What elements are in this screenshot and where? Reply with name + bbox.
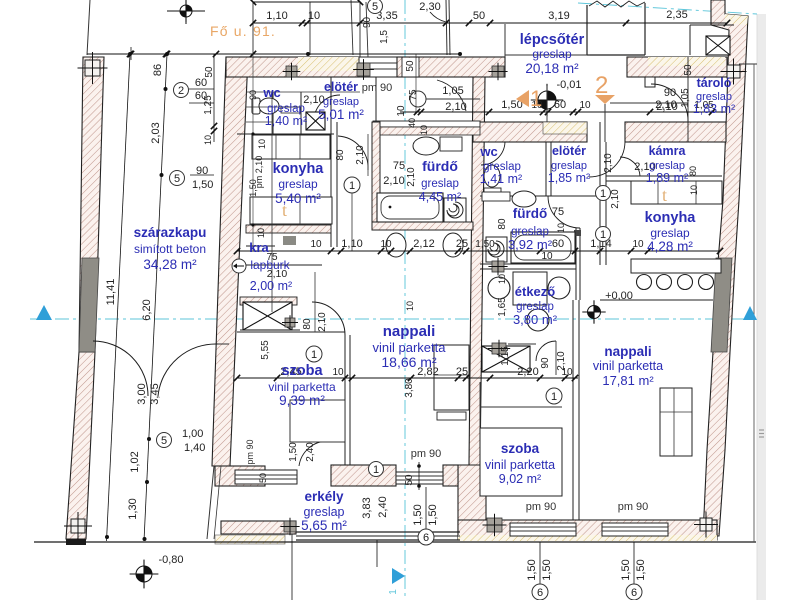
svg-text:greslap: greslap <box>278 177 318 191</box>
svg-text:1: 1 <box>530 86 542 111</box>
dim chain top y2 <box>253 1 360 3</box>
svg-text:+0,00: +0,00 <box>605 290 633 302</box>
szoba2 outline top step <box>480 406 562 408</box>
right outer wall (hatched) <box>703 0 748 536</box>
furdo1 bottom thin wall <box>372 222 473 230</box>
svg-text:3,80: 3,80 <box>404 378 415 398</box>
svg-text:10: 10 <box>310 239 322 250</box>
svg-text:9,02 m²: 9,02 m² <box>499 472 541 486</box>
svg-text:t: t <box>662 185 667 205</box>
left dim chain L1 (11,41) slanted <box>107 54 131 541</box>
svg-text:1,89 m²: 1,89 m² <box>646 171 688 185</box>
erkely railing lines <box>296 531 460 533</box>
svg-text:1,85 m²: 1,85 m² <box>548 171 590 185</box>
svg-text:10: 10 <box>497 274 507 284</box>
konyha2 upper counter <box>631 181 722 204</box>
svg-text:2,10: 2,10 <box>610 189 621 209</box>
position circle 6 <box>418 529 434 545</box>
furdo1 tub <box>377 193 443 222</box>
svg-text:1,50: 1,50 <box>248 179 258 197</box>
svg-text:50: 50 <box>204 66 215 78</box>
central wall lower corner block <box>458 465 486 536</box>
svg-text:2,10: 2,10 <box>383 175 404 187</box>
right wall cut section (gray) <box>711 258 732 352</box>
window south 2 <box>602 523 668 536</box>
svg-text:1,25: 1,25 <box>203 95 214 115</box>
svg-text:10: 10 <box>405 301 415 311</box>
svg-text:5,65 m²: 5,65 m² <box>301 518 347 533</box>
window opening in top wall <box>359 57 397 77</box>
svg-text:75: 75 <box>393 160 405 172</box>
szoba1 north wall line <box>237 331 345 333</box>
top wall yellow overlay <box>298 57 359 71</box>
svg-text:1: 1 <box>373 464 379 476</box>
partition furdo2/etkezo <box>480 263 576 265</box>
svg-text:elötér: elötér <box>552 144 586 158</box>
dim chain y378 <box>237 377 578 379</box>
svg-text:fürdő: fürdő <box>422 158 458 174</box>
szoba1-erkely door arc <box>299 441 328 466</box>
svg-text:80: 80 <box>335 149 346 161</box>
inner west wall (hatched) <box>212 57 248 466</box>
svg-text:pm 90: pm 90 <box>618 501 649 513</box>
section line vertical <box>404 0 406 598</box>
svg-text:szárazkapu: szárazkapu <box>134 225 207 240</box>
anchor mark <box>285 318 295 327</box>
partition eloter2/wc2 <box>545 142 547 196</box>
left dim chain L2 slanted <box>144 54 167 541</box>
konyha1 corridor door arc <box>338 136 368 170</box>
svg-text:60: 60 <box>195 77 207 89</box>
left wall base (black) <box>66 539 86 545</box>
position circle 1 <box>596 227 611 242</box>
svg-text:2,20: 2,20 <box>517 366 538 378</box>
svg-text:-0,01: -0,01 <box>556 79 581 91</box>
svg-text:11,41: 11,41 <box>105 279 117 306</box>
svg-text:1,41 m²: 1,41 m² <box>480 172 522 186</box>
svg-text:3,19: 3,19 <box>548 10 569 22</box>
svg-text:3,92 m²: 3,92 m² <box>508 237 553 252</box>
svg-text:60: 60 <box>554 99 566 111</box>
etkezo chair bottom <box>527 309 549 331</box>
top wall segment B <box>397 57 505 77</box>
erkely left slant boundary <box>207 466 214 539</box>
svg-text:2: 2 <box>178 85 184 97</box>
position circle 1 <box>344 177 360 193</box>
blue triangle bottom + F1 label <box>392 568 405 584</box>
svg-text:50: 50 <box>683 64 694 76</box>
svg-text:5,55: 5,55 <box>260 340 271 360</box>
svg-text:90: 90 <box>196 165 208 177</box>
svg-text:2: 2 <box>595 72 608 99</box>
svg-text:10: 10 <box>257 139 267 149</box>
top wall segment C (right of stairwell) <box>627 57 727 77</box>
scrollbar track <box>757 14 766 600</box>
svg-text:vinil parketta: vinil parketta <box>268 380 336 394</box>
furdo1 washer <box>444 198 466 222</box>
svg-text:90: 90 <box>362 16 373 28</box>
window south 1 <box>510 523 576 536</box>
wc1 door arc <box>314 95 340 121</box>
svg-text:1,50: 1,50 <box>526 559 538 580</box>
erkely yellow base <box>215 535 285 544</box>
svg-text:1,15: 1,15 <box>500 346 511 366</box>
furdo1 left thin wall <box>372 122 380 230</box>
svg-text:nappali: nappali <box>383 323 436 340</box>
shaft (X-box) <box>306 112 325 130</box>
szoba1 door arc <box>312 302 345 335</box>
svg-text:1: 1 <box>349 180 355 192</box>
svg-text:vinil parketta: vinil parketta <box>373 340 447 355</box>
svg-text:nappali: nappali <box>604 344 651 359</box>
svg-text:6,20: 6,20 <box>141 299 153 320</box>
svg-text:konyha: konyha <box>273 161 325 177</box>
svg-text:17,81 m²: 17,81 m² <box>602 373 654 388</box>
szoba2 inner line <box>479 428 481 496</box>
svg-text:80: 80 <box>497 218 508 230</box>
dim chain y54 <box>87 53 460 55</box>
central spine wall (hatched) <box>469 77 485 465</box>
registration mark <box>85 60 100 76</box>
svg-text:6: 6 <box>537 587 543 599</box>
svg-text:tároló: tároló <box>697 76 732 90</box>
svg-text:2,10: 2,10 <box>406 167 417 187</box>
svg-text:1,40: 1,40 <box>184 442 205 454</box>
benchmark ticks <box>167 10 205 12</box>
anchor mark <box>492 66 504 77</box>
svg-text:vinil parketta: vinil parketta <box>485 458 555 472</box>
furdo2 tub <box>511 232 575 263</box>
registration mark <box>700 518 712 531</box>
svg-text:1,00: 1,00 <box>182 428 203 440</box>
partition kamra/konyha2 <box>606 175 722 177</box>
position circle 5 <box>157 433 172 448</box>
svg-text:1,50: 1,50 <box>475 239 495 250</box>
section line horizontal <box>30 318 755 320</box>
partition konyha1 top <box>237 133 334 135</box>
svg-text:1,05: 1,05 <box>680 88 691 108</box>
tarolo door arc <box>651 84 688 121</box>
szoba1 south window <box>396 472 443 484</box>
svg-text:kámra: kámra <box>649 144 687 158</box>
position circle 1 <box>546 388 562 404</box>
position circle 1 <box>306 346 322 362</box>
svg-text:10: 10 <box>396 105 407 117</box>
dim chain top y23 <box>253 22 727 24</box>
anchor mark <box>492 261 504 272</box>
svg-text:greslap: greslap <box>304 505 345 519</box>
wall stub below segment C <box>645 77 655 87</box>
svg-text:60: 60 <box>552 238 564 250</box>
etkezo chair left <box>488 277 510 299</box>
nappali2 sofa <box>660 388 692 456</box>
svg-text:10: 10 <box>579 100 591 111</box>
svg-text:pm 90: pm 90 <box>526 501 557 513</box>
svg-text:1: 1 <box>551 391 557 403</box>
top site gate arc 2,30 <box>430 12 446 22</box>
svg-text:1,5: 1,5 <box>379 30 390 44</box>
svg-text:10: 10 <box>332 367 344 378</box>
svg-text:1,50: 1,50 <box>635 559 647 580</box>
position circle 5 <box>368 0 383 14</box>
partition konyha1/kra <box>246 225 331 233</box>
svg-text:1,50: 1,50 <box>288 442 299 462</box>
partition furdo2 top <box>480 195 600 197</box>
stairwell upper rectangle <box>586 5 588 55</box>
furdo1 top thin wall <box>373 121 480 127</box>
svg-text:1,40 m²: 1,40 m² <box>265 114 307 128</box>
konyha1 lower counter <box>250 197 332 224</box>
svg-text:fürdő: fürdő <box>513 206 548 221</box>
svg-text:3,83: 3,83 <box>361 497 373 518</box>
partition furdo2 right <box>575 228 577 300</box>
svg-text:25: 25 <box>456 238 468 250</box>
position circle 6 <box>626 584 642 600</box>
erkely top wall right part <box>331 465 396 486</box>
svg-text:4,28 m²: 4,28 m² <box>647 239 693 254</box>
svg-text:2,40: 2,40 <box>377 496 389 517</box>
furdo2 basin <box>512 191 536 207</box>
etkezo dining table <box>513 272 547 305</box>
porch lines above entrance <box>309 2 311 55</box>
svg-text:wc: wc <box>479 144 497 159</box>
anchor mark <box>286 66 297 77</box>
svg-text:-0,80: -0,80 <box>158 554 183 566</box>
partition konyha2/nappali2 <box>600 299 713 301</box>
svg-text:1,50: 1,50 <box>620 559 632 580</box>
svg-text:2,10: 2,10 <box>317 312 328 332</box>
stove burners <box>637 275 652 290</box>
svg-text:1,10: 1,10 <box>341 238 362 250</box>
gate door arcs (szarazkapu) <box>93 341 148 396</box>
svg-text:pm 90: pm 90 <box>245 439 255 464</box>
svg-text:erkély: erkély <box>304 489 344 504</box>
svg-text:1: 1 <box>600 229 606 241</box>
svg-text:3,80 m²: 3,80 m² <box>513 312 558 327</box>
dim chain y251 <box>237 250 720 252</box>
toilet pair below furdo1 <box>386 233 406 257</box>
svg-text:2,30: 2,30 <box>419 1 440 13</box>
svg-text:6: 6 <box>423 532 429 544</box>
blue triangle left <box>36 305 52 320</box>
kra shaft bottom line <box>240 329 300 331</box>
dim chain y112 <box>400 111 725 113</box>
right wall yellow corner <box>725 14 748 25</box>
svg-text:3,00: 3,00 <box>136 383 148 404</box>
szoba1 south wall piece <box>443 465 458 486</box>
furdo2 shelf <box>482 192 510 201</box>
svg-text:10: 10 <box>541 251 553 262</box>
svg-text:2,40: 2,40 <box>305 442 316 462</box>
svg-text:lapburk: lapburk <box>250 258 290 272</box>
konyha2 lower counter <box>631 259 721 273</box>
svg-text:10: 10 <box>203 135 213 145</box>
konyha1 upper counter <box>252 135 330 159</box>
svg-text:10: 10 <box>556 223 566 233</box>
svg-text:1,50: 1,50 <box>192 179 213 191</box>
position circle 1 <box>596 186 611 201</box>
wall dim line x214 <box>213 54 215 142</box>
svg-text:10: 10 <box>689 185 699 195</box>
kra bottom wall <box>240 297 297 305</box>
svg-text:34,28 m²: 34,28 m² <box>143 257 197 272</box>
svg-text:1,02: 1,02 <box>129 451 141 472</box>
svg-text:1,50: 1,50 <box>427 504 439 525</box>
anchor mark <box>492 343 506 354</box>
svg-text:80: 80 <box>302 318 313 330</box>
position circle 6 <box>532 584 548 600</box>
svg-text:1: 1 <box>388 589 399 595</box>
svg-text:75: 75 <box>552 206 564 218</box>
entrance door arc <box>410 91 426 107</box>
shaft (X-box) <box>243 302 292 330</box>
svg-text:2,10: 2,10 <box>445 101 466 113</box>
svg-text:40: 40 <box>407 118 417 128</box>
svg-text:greslap: greslap <box>532 47 572 61</box>
stair break marks <box>589 1 645 7</box>
outer left wall (hatched) <box>79 57 104 352</box>
svg-text:simított beton: simított beton <box>134 242 206 256</box>
svg-text:1,05: 1,05 <box>442 85 463 97</box>
svg-text:lépcsőtér: lépcsőtér <box>520 32 585 48</box>
ground line <box>34 541 756 543</box>
svg-text:25: 25 <box>456 366 468 378</box>
szoba1 desk <box>290 400 345 442</box>
position circle 5 <box>170 171 185 186</box>
partition wc1/eloter1 <box>272 92 274 134</box>
svg-text:2,03: 2,03 <box>150 122 162 143</box>
partition etkezo/szoba2 right <box>572 300 574 520</box>
svg-text:konyha: konyha <box>645 210 697 226</box>
furdo2 door arc <box>548 196 580 228</box>
svg-text:1,50: 1,50 <box>412 504 424 525</box>
svg-text:1,65: 1,65 <box>497 297 508 317</box>
svg-text:20,18 m²: 20,18 m² <box>525 61 579 76</box>
svg-text:50: 50 <box>404 474 415 486</box>
svg-text:2,10: 2,10 <box>355 145 366 165</box>
svg-text:90: 90 <box>248 90 258 100</box>
svg-text:90: 90 <box>540 357 551 369</box>
svg-text:5,01 m²: 5,01 m² <box>318 107 364 122</box>
erkely window <box>235 470 297 484</box>
svg-text:10: 10 <box>380 239 392 250</box>
nappali1 small shelf <box>437 412 466 420</box>
registration mark <box>727 65 740 78</box>
svg-text:5: 5 <box>161 435 167 447</box>
furdo2 washer <box>486 237 507 262</box>
svg-text:1,50: 1,50 <box>541 559 553 580</box>
svg-text:2,12: 2,12 <box>413 238 434 250</box>
svg-text:2,35: 2,35 <box>666 9 687 21</box>
mid horizontal wall right part <box>625 122 726 142</box>
site boundary cyan top right <box>578 3 757 14</box>
svg-text:5: 5 <box>174 173 180 185</box>
svg-text:1: 1 <box>311 349 317 361</box>
site boundary line top-left <box>87 0 90 55</box>
partition konyha1 right <box>330 77 332 247</box>
blue triangle right <box>743 306 757 320</box>
wc2 toilet <box>484 165 500 187</box>
svg-text:szoba: szoba <box>281 363 323 379</box>
svg-text:50: 50 <box>405 60 416 72</box>
svg-text:étkező: étkező <box>515 284 556 299</box>
bottom dim verticals <box>539 542 541 584</box>
svg-text:75: 75 <box>408 89 419 101</box>
svg-text:9,39 m²: 9,39 m² <box>279 393 325 408</box>
svg-text:1,30: 1,30 <box>127 498 139 519</box>
svg-text:2,10: 2,10 <box>656 101 677 113</box>
svg-text:18,66 m²: 18,66 m² <box>381 354 437 370</box>
svg-text:10: 10 <box>419 125 429 135</box>
szoba2 bed <box>480 428 562 496</box>
registration mark <box>71 519 85 533</box>
svg-text:3,45: 3,45 <box>149 383 161 404</box>
svg-text:pm 90: pm 90 <box>362 82 393 94</box>
svg-text:86: 86 <box>152 64 164 76</box>
svg-text:greslap: greslap <box>421 178 459 190</box>
svg-text:10: 10 <box>632 239 644 250</box>
svg-text:1,10: 1,10 <box>266 10 287 22</box>
svg-text:6: 6 <box>631 587 637 599</box>
position circle 1 <box>369 462 384 477</box>
shaft (X-box) <box>482 346 530 372</box>
svg-text:1: 1 <box>600 188 606 200</box>
bottom wall yellow strip <box>458 535 717 541</box>
svg-text:90: 90 <box>664 87 676 99</box>
top wall segment A <box>226 57 359 77</box>
svg-text:greslap: greslap <box>650 226 690 240</box>
svg-text:kra: kra <box>249 240 269 255</box>
erkely top wall left part <box>215 466 265 486</box>
wc2 door arc <box>481 142 505 165</box>
svg-text:2,10: 2,10 <box>556 351 567 371</box>
kamra door arc <box>620 157 640 176</box>
svg-text:wc: wc <box>262 85 280 100</box>
mid horizontal wall (lepcsoter bottom) left part <box>473 122 587 142</box>
svg-text:pm 90: pm 90 <box>411 448 442 460</box>
svg-text:5: 5 <box>372 1 378 13</box>
furdo1 basin <box>413 137 439 155</box>
svg-text:10: 10 <box>308 10 320 22</box>
svg-text:2,10: 2,10 <box>603 153 614 173</box>
taroló west wall line <box>687 57 689 142</box>
lepcsoter-eloter2 door arc <box>589 142 625 177</box>
etkezo door arc <box>536 341 556 361</box>
svg-text:vinil parketta: vinil parketta <box>593 359 663 373</box>
anchor mark <box>357 63 370 76</box>
survey point symbol <box>136 566 152 582</box>
svg-text:4,45 m²: 4,45 m² <box>419 190 461 204</box>
svg-text:5,40 m²: 5,40 m² <box>275 191 321 206</box>
svg-text:80: 80 <box>688 166 698 176</box>
survey point symbol <box>588 306 601 319</box>
kra entry arrow circle <box>232 259 246 273</box>
svg-text:50: 50 <box>258 473 268 483</box>
partition szoba1/nappali1 <box>344 335 346 465</box>
svg-text:2,10: 2,10 <box>303 94 324 106</box>
erkely bottom wall <box>221 521 296 534</box>
svg-text:elötér: elötér <box>324 80 358 94</box>
svg-text:1,83 m²: 1,83 m² <box>693 102 735 116</box>
survey point symbol <box>180 5 192 17</box>
etkezo chair right <box>548 277 570 299</box>
svg-text:2,00 m²: 2,00 m² <box>250 279 292 293</box>
partition eloter2/kamra vertical <box>599 122 601 265</box>
anchor mark <box>284 521 296 532</box>
shaft (X-box) <box>706 36 730 55</box>
svg-text:Fő u. 91.: Fő u. 91. <box>210 23 276 39</box>
position circle 2 <box>174 83 189 98</box>
